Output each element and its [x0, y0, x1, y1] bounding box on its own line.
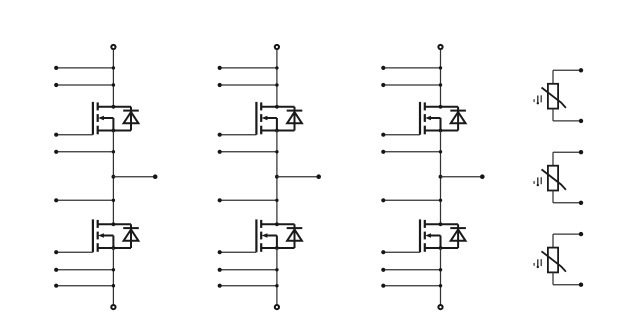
wire source stub Q1 [98, 130, 131, 132]
junction source node Q6 [439, 246, 443, 250]
junction source node Q1 [112, 129, 116, 133]
terminal bottom pin RT2 [579, 201, 583, 205]
wire source sense stub 2 Q2 [54, 284, 115, 288]
gate electrode bar Q2 [92, 219, 94, 252]
wire gate lead Q1 [54, 133, 93, 137]
wire phase output leg1 [113, 176, 155, 178]
wire positive bus leg2 [276, 50, 278, 107]
label t-degree RT3 [534, 259, 541, 268]
anti-parallel body diode D3 [287, 107, 303, 131]
wire drain sense stub Q6 [381, 198, 442, 202]
wire source sense stub Q1 [54, 150, 115, 154]
gate electrode bar Q5 [419, 102, 421, 135]
junction source node Q5 [439, 129, 443, 133]
wire drain stub Q1 [98, 106, 131, 108]
wire source stub Q6 [425, 247, 458, 249]
node phase output leg3 [439, 175, 443, 179]
terminal top pin RT2 [579, 150, 583, 154]
wire source sense stub 1 Q6 [381, 268, 442, 272]
wire positive bus leg1 [112, 50, 114, 107]
wire top lead RT3 [553, 234, 581, 248]
terminal bottom pin RT1 [579, 119, 583, 123]
gate electrode bar Q4 [255, 219, 257, 252]
wire source sense stub 2 Q6 [381, 284, 442, 288]
body-source tie with arrow Q2 [98, 233, 113, 248]
wire source stub Q4 [261, 247, 294, 249]
wire phase bus leg3 [440, 131, 442, 225]
label t-degree RT1 [534, 95, 541, 104]
anti-parallel body diode D5 [450, 107, 466, 131]
node phase output leg1 [112, 175, 116, 179]
wire gate lead Q3 [218, 133, 257, 137]
wire positive bus leg3 [440, 50, 442, 107]
wire phase output leg2 [277, 176, 319, 178]
wire drain sense stub Q4 [218, 198, 279, 202]
wire drain stub Q6 [425, 223, 458, 225]
body-source tie with arrow Q4 [262, 233, 277, 248]
channel segments Q6 [424, 220, 426, 252]
wire drain stub Q4 [261, 223, 294, 225]
NTC thermistor RT2 [542, 166, 566, 191]
wire gate lead Q5 [381, 133, 420, 137]
NTC thermistor RT1 [542, 84, 566, 109]
junction source node Q3 [275, 129, 279, 133]
wire bottom lead RT2 [553, 191, 581, 203]
junction drain node Q3 [275, 105, 279, 109]
terminal phase output pin leg3 [480, 174, 485, 179]
wire drain sense stub 1 leg3 [381, 66, 442, 70]
anti-parallel body diode D6 [450, 224, 466, 248]
node phase output leg2 [275, 175, 279, 179]
anti-parallel body diode D1 [123, 107, 139, 131]
body-source tie with arrow Q5 [425, 116, 440, 131]
wire source sense stub Q5 [381, 150, 442, 154]
terminal DC+ pin leg1 [111, 45, 115, 49]
wire bottom lead RT3 [553, 272, 581, 284]
wire drain sense stub Q2 [54, 198, 115, 202]
wire drain stub Q2 [98, 223, 131, 225]
wire drain stub Q3 [261, 106, 294, 108]
junction drain node Q1 [112, 105, 116, 109]
gate electrode bar Q6 [419, 219, 421, 252]
body-source tie with arrow Q3 [262, 116, 277, 131]
wire top lead RT1 [553, 70, 581, 84]
wire gate lead Q4 [218, 250, 257, 254]
terminal bottom pin RT3 [579, 283, 583, 287]
channel segments Q2 [97, 220, 99, 252]
terminal DC+ pin leg3 [438, 45, 442, 49]
wire source sense stub 1 Q4 [218, 268, 279, 272]
wire phase bus leg1 [112, 131, 114, 225]
anti-parallel body diode D2 [123, 224, 139, 248]
junction source node Q2 [112, 246, 116, 250]
terminal DC- pin leg3 [438, 305, 442, 309]
wire source stub Q3 [261, 130, 294, 132]
channel segments Q1 [97, 102, 99, 134]
wire negative bus leg2 [276, 248, 278, 305]
junction drain node Q6 [439, 222, 443, 226]
terminal phase output pin leg1 [153, 174, 158, 179]
body-source tie with arrow Q6 [425, 233, 440, 248]
gate electrode bar Q3 [255, 102, 257, 135]
terminal top pin RT3 [579, 232, 583, 236]
terminal DC- pin leg2 [275, 305, 279, 309]
wire negative bus leg3 [440, 248, 442, 305]
junction drain node Q4 [275, 222, 279, 226]
anti-parallel body diode D4 [287, 224, 303, 248]
terminal top pin RT1 [579, 68, 583, 72]
wire gate lead Q2 [54, 250, 93, 254]
wire phase output leg3 [441, 176, 483, 178]
wire drain sense stub 1 leg1 [54, 66, 115, 70]
junction drain node Q2 [112, 222, 116, 226]
channel segments Q4 [260, 220, 262, 252]
terminal DC- pin leg1 [111, 305, 115, 309]
junction source node Q4 [275, 246, 279, 250]
wire bottom lead RT1 [553, 109, 581, 121]
wire drain sense stub 2 leg3 [381, 83, 442, 87]
label t-degree RT2 [534, 177, 541, 186]
wire drain stub Q5 [425, 106, 458, 108]
body-source tie with arrow Q1 [98, 116, 113, 131]
wire negative bus leg1 [112, 248, 114, 305]
channel segments Q3 [260, 102, 262, 134]
wire source sense stub Q3 [218, 150, 279, 154]
wire source stub Q2 [98, 247, 131, 249]
gate electrode bar Q1 [92, 102, 94, 135]
channel segments Q5 [424, 102, 426, 134]
NTC thermistor RT3 [542, 248, 566, 273]
wire phase bus leg2 [276, 131, 278, 225]
wire source sense stub 1 Q2 [54, 268, 115, 272]
junction drain node Q5 [439, 105, 443, 109]
wire source stub Q5 [425, 130, 458, 132]
wire top lead RT2 [553, 152, 581, 166]
terminal DC+ pin leg2 [275, 45, 279, 49]
wire gate lead Q6 [381, 250, 420, 254]
wire drain sense stub 1 leg2 [218, 66, 279, 70]
wire drain sense stub 2 leg1 [54, 83, 115, 87]
wire drain sense stub 2 leg2 [218, 83, 279, 87]
wire source sense stub 2 Q4 [218, 284, 279, 288]
terminal phase output pin leg2 [316, 174, 321, 179]
